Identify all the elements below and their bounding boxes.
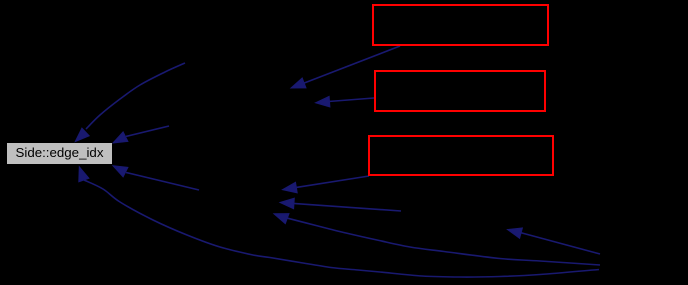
- long bottom curved edge from far-right hidden node to Side::edge_idx: [79, 167, 599, 277]
- red caller box 2 (label hidden): [375, 71, 545, 111]
- long curved edge from far-right hidden node (middle): [274, 214, 600, 265]
- red caller box 1 (label hidden): [373, 5, 548, 45]
- edge from far-right hidden node (upper straight): [508, 228, 601, 254]
- edge from hidden caller A3 to Side::edge_idx: [113, 166, 199, 190]
- svg-text:Side::edge_idx: Side::edge_idx: [16, 145, 104, 160]
- edge from red box 1 to hidden node: [291, 46, 400, 88]
- edge from hidden caller A2 to Side::edge_idx: [113, 126, 169, 143]
- edge from red box 3 to hidden node: [283, 176, 370, 193]
- red caller box 3 (label hidden): [369, 136, 553, 175]
- edge from red box 2 to hidden node: [316, 96, 375, 107]
- edge from hidden caller A1 to Side::edge_idx (curved): [75, 63, 185, 142]
- edge between hidden nodes (middle): [280, 198, 401, 211]
- node Side::edge_idx: [7, 143, 112, 164]
